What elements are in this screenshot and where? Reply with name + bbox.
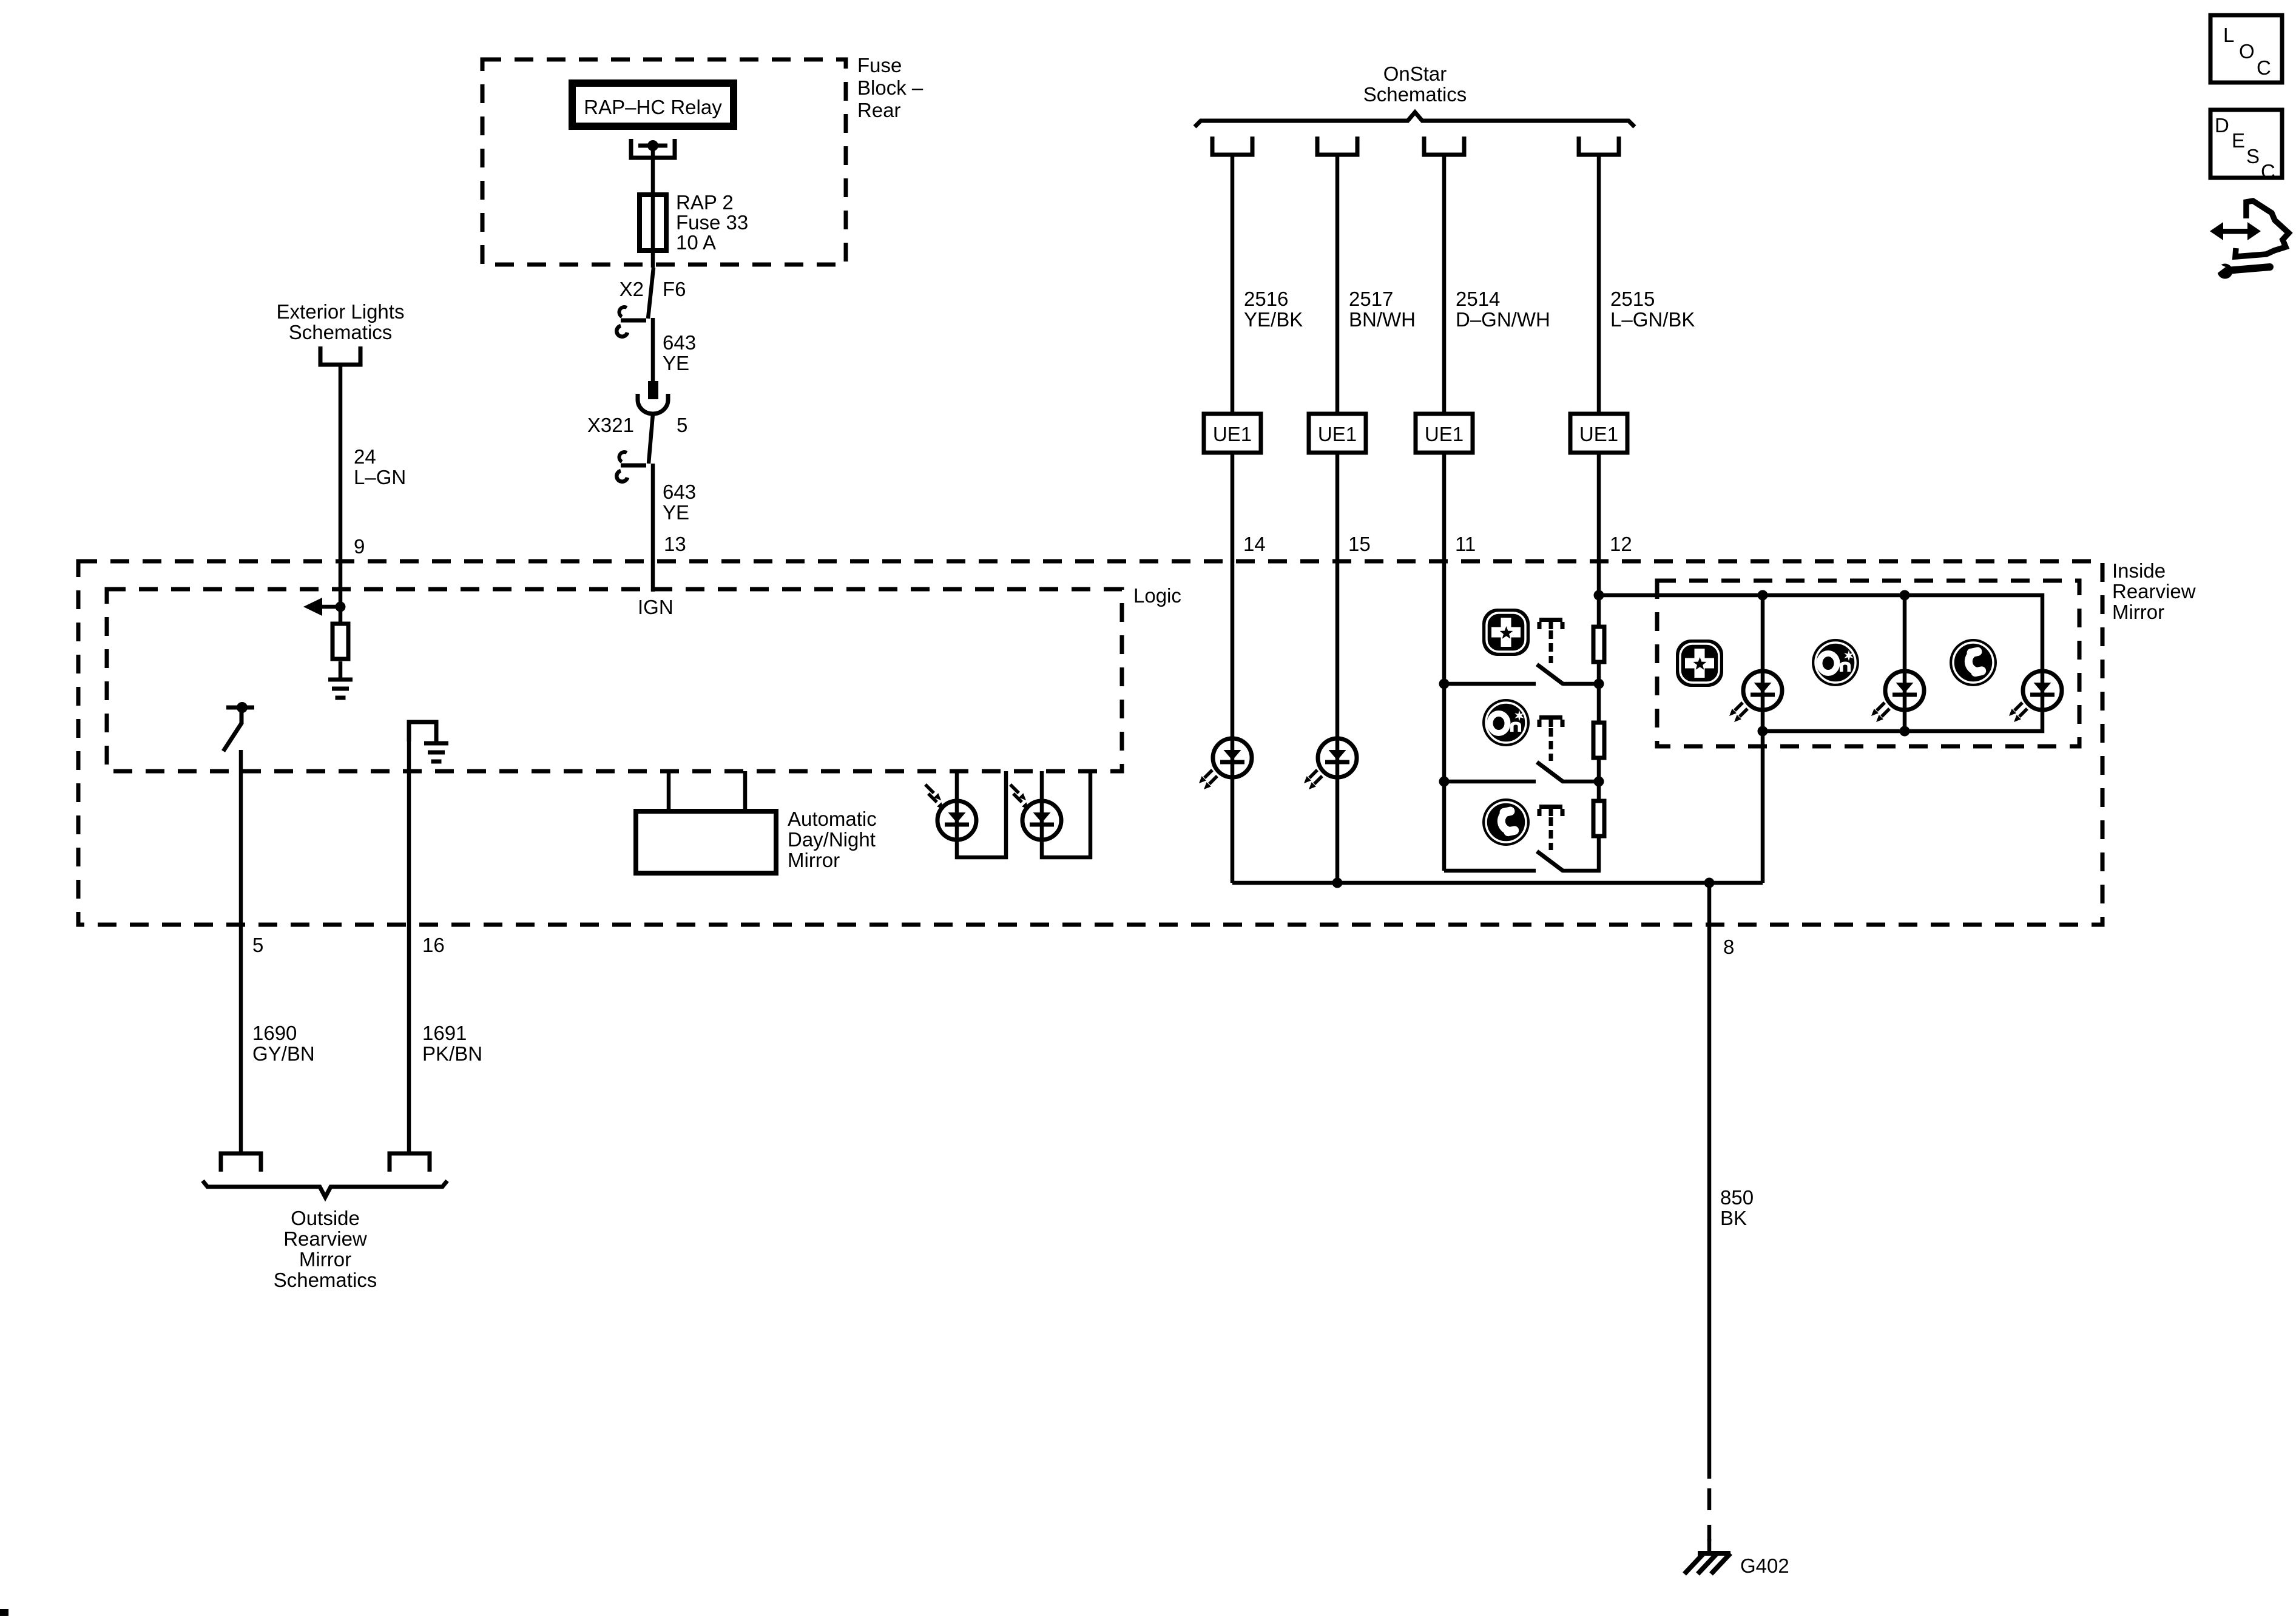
svg-text:10 A: 10 A — [676, 231, 716, 254]
connector X321 pin 5 — [648, 381, 658, 399]
connector to OnStar schematics col 1 — [1212, 137, 1252, 155]
DESC reference box — [2210, 110, 2282, 178]
LED A backlight — [1761, 595, 1765, 731]
svg-text:UE1: UE1 — [1213, 423, 1252, 445]
wire pin 12 resistor rail — [1597, 453, 1601, 629]
switch phone — [1444, 869, 1536, 873]
svg-text:D: D — [2215, 114, 2229, 137]
svg-text:S: S — [2246, 145, 2260, 167]
splice UE1 col 2 — [1309, 414, 1366, 453]
switch onstar — [1444, 780, 1536, 784]
svg-text:IGN: IGN — [638, 596, 674, 618]
svg-text:UE1: UE1 — [1318, 423, 1357, 445]
connector to outside mirror schematics (left) — [221, 1153, 261, 1172]
svg-text:UE1: UE1 — [1579, 423, 1618, 445]
resistor R3 (button pull-up) — [1593, 723, 1604, 758]
display dashed box — [1657, 581, 2079, 746]
svg-text:Block –: Block – — [857, 76, 923, 99]
junction node pin 9 — [336, 602, 346, 612]
svg-text:C: C — [2257, 56, 2271, 79]
wire relay to fuse — [651, 146, 655, 268]
svg-text:Logic: Logic — [1133, 584, 1181, 607]
svg-text:Day/Night: Day/Night — [788, 828, 876, 851]
junction dot pin 12 to display — [1594, 590, 1604, 601]
svg-text:Outside: Outside — [291, 1207, 360, 1229]
svg-text:PK/BN: PK/BN — [422, 1042, 482, 1065]
svg-text:C: C — [2261, 160, 2275, 183]
inside rearview mirror dashed box — [78, 561, 2102, 925]
button icon phone — [1482, 798, 1530, 846]
svg-text:Schematics: Schematics — [274, 1269, 377, 1291]
wire 2516 YE/BK — [1231, 155, 1235, 414]
arrow output to left — [320, 605, 340, 609]
wire 2515 L–GN/BK — [1597, 155, 1601, 414]
relay contact pin cup — [631, 139, 675, 158]
wire 643 YE lower — [651, 464, 655, 592]
junction dots row 1288 — [1439, 777, 1450, 787]
svg-text:GY/BN: GY/BN — [252, 1042, 315, 1065]
svg-text:D–GN/WH: D–GN/WH — [1456, 308, 1550, 331]
svg-text:24: 24 — [354, 445, 376, 468]
LED2 (OnStar indicator) — [1304, 738, 1357, 789]
LED1 (OnStar indicator) — [1199, 738, 1252, 789]
svg-text:Rearview: Rearview — [2112, 580, 2196, 603]
svg-text:YE: YE — [663, 352, 689, 374]
svg-text:O: O — [2239, 40, 2255, 62]
svg-text:643: 643 — [663, 481, 696, 503]
svg-text:1690: 1690 — [252, 1022, 297, 1044]
photodiode PD2 (light sensor) — [1042, 771, 1090, 857]
connector to OnStar schematics col 3 — [1424, 137, 1464, 155]
navigation arrow and wrench icon — [2210, 201, 2289, 279]
svg-text:BN/WH: BN/WH — [1349, 308, 1416, 331]
svg-text:14: 14 — [1243, 533, 1266, 555]
fuse block rear dashed box — [482, 59, 846, 265]
wire top rail to display LEDs — [1599, 595, 2042, 731]
connector to outside mirror schematics (right) — [390, 1153, 430, 1172]
brace OnStar schematics — [1195, 112, 1635, 127]
ground (logic, pin 16 branch) — [409, 722, 436, 741]
svg-text:Automatic: Automatic — [788, 808, 877, 830]
svg-text:G402: G402 — [1740, 1555, 1789, 1577]
splice UE1 col 3 — [1416, 414, 1473, 453]
svg-text:850: 850 — [1720, 1186, 1754, 1209]
svg-text:E: E — [2232, 129, 2245, 152]
svg-text:5: 5 — [677, 414, 687, 436]
svg-text:12: 12 — [1610, 533, 1632, 555]
svg-text:RAP 2: RAP 2 — [676, 191, 734, 214]
connector to OnStar schematics col 2 — [1317, 137, 1357, 155]
ground (logic left) — [328, 680, 353, 698]
wire 643 YE upper — [651, 318, 655, 381]
svg-text:Fuse 33: Fuse 33 — [676, 211, 748, 234]
svg-text:2516: 2516 — [1244, 288, 1288, 310]
resistor R2 (button pull-up) — [1593, 627, 1604, 662]
resistor R4 (button pull-up) — [1593, 801, 1604, 836]
wire 2514 D–GN/WH — [1442, 155, 1447, 414]
LED C backlight — [2009, 671, 2062, 722]
svg-text:643: 643 — [663, 331, 696, 354]
svg-text:5: 5 — [252, 934, 263, 956]
wire bottom ground rail — [1232, 881, 1763, 885]
svg-text:OnStar: OnStar — [1383, 62, 1447, 85]
wire dashed to G402 — [1707, 1488, 1712, 1541]
wire 850 BK pin 8 — [1707, 883, 1712, 1479]
connector X2 cavity F6 — [648, 268, 653, 319]
page artifact dot bottom-left — [0, 1609, 8, 1616]
display icon phone — [1950, 639, 1997, 686]
svg-text:Inside: Inside — [2112, 559, 2166, 582]
switch emergency — [1444, 682, 1536, 686]
wire resistor to ground — [339, 661, 343, 680]
fuse F33 RAP 2 10 A — [640, 195, 666, 251]
display icon onstar — [1812, 639, 1859, 686]
svg-text:L–GN/BK: L–GN/BK — [1610, 308, 1695, 331]
svg-text:Rearview: Rearview — [283, 1227, 367, 1250]
wire pin 15 to LED2 — [1335, 453, 1340, 883]
splice UE1 col 1 — [1204, 414, 1261, 453]
svg-text:2517: 2517 — [1349, 288, 1393, 310]
svg-text:F6: F6 — [663, 278, 686, 300]
automatic day/night mirror box — [667, 771, 671, 811]
svg-text:Schematics: Schematics — [289, 321, 393, 343]
svg-text:Schematics: Schematics — [1363, 83, 1467, 106]
svg-text:YE: YE — [663, 501, 689, 524]
svg-text:15: 15 — [1348, 533, 1371, 555]
svg-text:X321: X321 — [587, 414, 634, 436]
switch S1 (logic) — [226, 706, 254, 710]
svg-text:BK: BK — [1720, 1207, 1747, 1229]
wire 2517 BN/WH — [1335, 155, 1340, 414]
button icon onstar — [1482, 699, 1530, 746]
wire pin 14 to LED1 — [1231, 453, 1235, 883]
svg-text:X2: X2 — [620, 278, 644, 300]
svg-text:UE1: UE1 — [1425, 423, 1464, 445]
LOC reference box — [2210, 15, 2282, 83]
wire display drop to ground rail — [1761, 731, 1765, 883]
svg-text:2515: 2515 — [1610, 288, 1655, 310]
junction dots row 1127 — [1439, 679, 1450, 689]
button icon emergency — [1482, 609, 1530, 656]
wire pin 11 switch rail — [1442, 453, 1447, 871]
svg-text:YE/BK: YE/BK — [1244, 308, 1303, 331]
svg-text:Mirror: Mirror — [2112, 601, 2164, 623]
svg-text:11: 11 — [1455, 533, 1476, 555]
LED B backlight — [1903, 595, 1907, 731]
svg-text:RAP–HC Relay: RAP–HC Relay — [584, 96, 722, 118]
resistor R1 (logic) — [339, 607, 343, 622]
brace outside rearview mirror schematics — [203, 1181, 447, 1197]
svg-text:L–GN: L–GN — [354, 466, 406, 488]
connector to exterior lights schematics — [320, 346, 360, 365]
svg-text:9: 9 — [354, 535, 365, 558]
relay pin T-bar and junction dot — [638, 144, 667, 148]
relay K RAP-HC label box — [572, 83, 734, 126]
logic dashed box — [107, 589, 1122, 771]
svg-text:13: 13 — [664, 533, 686, 555]
ground G402 — [1707, 1539, 1712, 1553]
svg-text:16: 16 — [422, 934, 445, 956]
svg-text:Mirror: Mirror — [299, 1248, 351, 1271]
splice UE1 col 4 — [1570, 414, 1627, 453]
svg-text:Mirror: Mirror — [788, 849, 840, 871]
wire 24 L-GN pin 9 — [339, 365, 343, 607]
display icon emergency — [1676, 640, 1723, 687]
svg-text:2514: 2514 — [1456, 288, 1500, 310]
svg-text:1691: 1691 — [422, 1022, 467, 1044]
svg-text:Fuse: Fuse — [857, 54, 902, 76]
svg-text:L: L — [2223, 24, 2234, 46]
svg-text:8: 8 — [1723, 936, 1734, 958]
photodiode PD1 (light sensor) — [957, 771, 1006, 857]
wire 1691 PK/BN pin 16 — [407, 722, 411, 1153]
svg-text:Rear: Rear — [857, 99, 901, 121]
svg-text:Exterior Lights: Exterior Lights — [277, 300, 405, 323]
wire 1690 GY/BN pin 5 — [239, 750, 243, 1153]
connector to OnStar schematics col 4 — [1579, 137, 1619, 155]
